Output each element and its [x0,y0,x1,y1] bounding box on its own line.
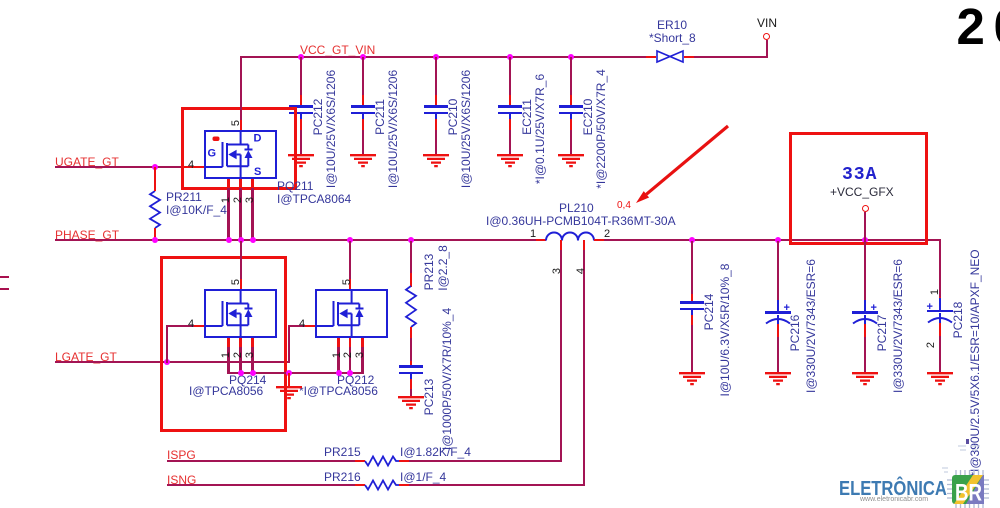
value PC211 [386,70,400,188]
label PL210 [559,201,594,215]
wire PL210 pin2 red stub [594,239,604,241]
junction PHASE-PQ212p5 [347,237,353,243]
wire PC218 red stub lower [939,323,941,338]
value EC211 [533,74,547,184]
value EC210 [594,69,608,189]
wire EC210 lower red stub [570,119,572,130]
capacitor PC217 [864,300,866,314]
junction PC210 [433,54,439,60]
value I@1/F_4 [400,470,446,484]
wire ISPG right [409,460,562,462]
label PQ214 [229,373,266,387]
wire PL210 pin1 red stub [536,239,546,241]
capacitor PC211 [351,105,375,107]
plus sign PC217 [871,302,877,314]
junction EC211 [507,54,513,60]
wire PC214 lower [691,325,693,373]
wire PHASE_GT [55,239,536,241]
wire PC210 upper [435,57,437,95]
plus sign PC218 [927,301,933,313]
label PR213 [422,254,436,291]
label PC211 [373,99,387,135]
ground under PC211 [349,154,377,168]
pin 1 PQ214 [220,352,232,358]
wire PQ214 pin2 red stub [239,338,241,348]
label 33A [842,165,877,185]
label PC213 [422,379,436,416]
wire PC217 lower [864,337,866,373]
page number 2 [957,1,985,52]
label PC210 [446,99,460,136]
wire PQ214 pin1 red stub [227,338,229,348]
value PC216 [804,259,818,393]
pin 2 PQ211 [232,197,244,203]
capacitor PC214 [680,301,704,303]
junction PC211 [360,54,366,60]
pin 3 PQ211 [244,197,256,203]
wire PQ214 pin3 red stub [251,338,253,348]
wire EC211 upper red stub [509,95,511,107]
pin 3 PQ212 [354,352,366,358]
junction out-PC214 [689,237,695,243]
wire PR213-PC213 [410,338,412,363]
wire PQ212 gate red stub [305,325,315,327]
wire PQ214 pin5 riser [240,241,242,279]
wire PC216 red stub lower [777,324,779,338]
wire VCC_GT_VIN bus [241,56,646,58]
wire PC210 lower red stub [435,119,437,130]
junction out-PC217 [862,237,868,243]
label PR216 [324,470,361,484]
pin 3 PL210 [551,268,563,274]
wire EC211 upper [509,57,511,95]
wire EC211 lower red stub [509,119,511,130]
box around PQ211 [181,107,297,190]
wire ISNG right [409,484,585,486]
annotation arrow [632,120,732,210]
wire PQ212 pin1 red stub [337,338,339,348]
wire PQ211 pin1 red stub [227,179,229,189]
label EC210 [581,99,595,136]
value *I@TPCA8056 [299,384,378,398]
capacitor EC210 [559,105,583,107]
junction PHASE-PR211 [152,237,158,243]
wire PQ212 pin5 riser [349,241,351,279]
box around PQ214 [160,256,287,432]
pin 2 PQ214 [232,352,244,358]
wire PQ214 pin1 [227,347,229,374]
wire ER10 left red stub [646,56,656,58]
wire PQ212 pin1 [337,347,339,374]
resistor PR211 [149,191,161,228]
wire EC211 lower [509,130,511,155]
wire PL210 pin4 red stub [583,240,585,251]
label PC217 [875,315,889,352]
wire PC211 lower [362,130,364,155]
net label ISNG [167,473,196,487]
wire PQ212 pin3 [361,347,363,374]
wire PQ214 pin5 red stub [240,279,242,289]
pin 4 PL210 [575,268,587,274]
wire EC210 lower [570,130,572,155]
junction rail-PQ214p2 [238,370,244,376]
wire PQ214 pin3 [251,347,253,374]
wire PC213 bottom red [410,379,412,390]
wire PQ211 pin1 [227,188,229,241]
wire PC210 lower [435,130,437,155]
EletronicaBR logo text [839,478,947,501]
wire PR213 top red [410,273,412,287]
wire PC217 upper [864,241,866,301]
net label +VCC_GFX [830,185,894,199]
wire LGATE_GT [55,361,289,363]
wire ISPG red stub right [399,460,409,462]
wire ISNG red stub right [399,484,409,486]
wire PC211 upper [362,57,364,95]
wire PC218 drop [939,240,941,298]
wire UGATE red stub to PQ211 gate [181,166,204,168]
wire PR213 bottom red [410,327,412,339]
wire VIN drop [766,40,768,57]
label PR215 [324,445,361,459]
wire ground stem [288,373,290,387]
wire ISPG red stub left [355,460,365,462]
junction PHASE-PR213 [408,237,414,243]
wire EC210 upper [570,57,572,95]
junction PHASE-PQ211p3 [250,237,256,243]
wire ISPG left [167,460,355,462]
pin 1 PQ212 [331,352,343,358]
wire PC218 lower [939,336,941,373]
junction PHASE-PQ211p1 [226,237,232,243]
wire PC212 lower red stub [300,119,302,130]
value I@10K/F_4 [166,203,227,217]
value I@TPCA8064 [277,192,351,206]
label PC214 [702,294,716,331]
pin 1 PL210 [530,228,536,240]
wire PQ212 gate vertical [288,326,290,363]
pin 1 PC218 [929,288,941,294]
wire PC212 upper red stub [300,95,302,107]
wire source rail [228,372,364,374]
wire UGATE_GT [55,166,181,168]
EletronicaBR logo url [860,496,928,503]
wire PC214 upper [691,241,693,295]
label EC211 [520,99,534,135]
capacitor PC216 [777,300,779,314]
wire PQ212 gate horizontal [288,325,305,327]
net label PHASE_GT [55,228,119,242]
net label UGATE_GT [55,155,119,169]
wire PC213 bottom [410,389,412,398]
wire PQ212 pin5 red stub [349,279,351,289]
wire +VCC_GFX stem [864,212,866,241]
capacitor PC213 [399,365,423,367]
junction out-PC216 [775,237,781,243]
net label VCC_GT_VIN [300,43,375,57]
wire VCC_GFX output bus [604,239,941,241]
wire off-page stub B [0,288,9,290]
wire PR211 top red [154,167,156,191]
pin 1 PQ211 [220,197,232,203]
wire PR213 top [410,241,412,274]
ground under PC212 [287,154,315,168]
wire PC212 upper [300,57,302,95]
ground under PC213 [397,396,425,410]
pin 3 PQ214 [244,352,256,358]
pin 2 PC218 [925,342,937,348]
transistor PQ212 [315,289,388,338]
wire PQ214 gate red stub [194,325,204,327]
inductor PL210 [546,231,594,241]
current label 0,4 [617,200,631,211]
wire PC216 upper [777,241,779,301]
label PQ212 [337,373,374,387]
junction rail-PQ214p3 [250,370,256,376]
wire PL210 pin3 red stub [560,240,562,251]
plus sign PC216 [784,302,790,314]
value PC212 [324,70,338,188]
pin 4 PQ214 [188,318,194,330]
value PR213 [436,245,450,291]
wire EC210 upper red stub [570,95,572,107]
capacitor PC210 [424,105,448,107]
resistor PR215 [365,455,399,467]
label VIN [757,16,777,30]
value PC218 [968,249,982,476]
wire PQ211 pin3 red stub [251,179,253,189]
junction rail-gnd [286,370,292,376]
wire PC216 lower [777,337,779,373]
svg-text:D: D [254,133,262,145]
wire PL210 pin4 riser [583,250,585,486]
junction PC212 [298,54,304,60]
wire ISNG red stub left [355,484,365,486]
net label LGATE_GT [55,350,117,364]
wire PQ211 pin5 red stub [240,120,242,130]
wire ER10 right red stub [684,56,694,58]
junction LGATE-PQ214gate [164,359,170,365]
label PQ211 [277,179,313,193]
wire PQ211 pin2 red stub [239,179,241,189]
net label ISPG [167,448,196,462]
label PC216 [788,315,802,352]
pin 5 PQ212 [341,279,353,285]
box 33A current annotation [789,132,928,245]
resistor PR216 [365,479,399,491]
value I@TPCA8056 [189,384,263,398]
power port +VCC_GFX [862,205,869,212]
ground under PC217 [851,372,879,386]
pin 4 PQ211 [188,159,194,171]
pin 2 PQ212 [342,352,354,358]
ground under EC210 [557,154,585,168]
wire PQ212 pin2 red stub [349,338,351,348]
value *Short_8 [649,31,696,45]
page number 0 [994,1,1000,52]
ground under PC210 [422,154,450,168]
wire PC214 red stub upper [691,294,693,303]
resistor PR213 [405,286,417,327]
transistor PQ211 [204,130,277,179]
wire PC214 red stub lower [691,315,693,326]
power port VIN [763,33,770,40]
wire PQ211 pin2 [239,188,241,241]
junction UGATE-PR211 [152,164,158,170]
transistor PQ214 [204,289,277,338]
wire PC212 lower [300,130,302,155]
label PR211 [166,190,202,204]
value I@1.82K/F_4 [400,445,471,459]
label PC218 [951,302,965,339]
pin 2 PL210 [604,228,610,240]
capacitor PC218 [939,298,941,312]
wire PC217 red stub lower [864,324,866,338]
ground under MOSFET pair [275,386,303,400]
wire PC218 red stub upper [939,297,941,300]
svg-text:G: G [208,148,217,160]
wire PL210 pin3 riser [560,250,562,462]
junction PHASE-PQ211p2 [238,237,244,243]
wire PQ211 pin5 riser [240,56,242,120]
wire ISNG left [167,484,355,486]
value PC213 [440,308,454,450]
capacitor EC211 [498,105,522,107]
junction rail-PQ212p1 [336,370,342,376]
wire PC211 upper red stub [362,95,364,107]
svg-text:S: S [254,166,261,178]
ground under PC216 [764,372,792,386]
junction EC210 [568,54,574,60]
ground under EC211 [496,154,524,168]
wire PQ211 pin3 [251,188,253,241]
value PL210 [486,214,676,228]
wire PC213 top red [410,361,412,367]
value PC214 [718,264,732,397]
value PC217 [891,259,905,393]
wire PQ214 gate vertical [166,326,168,363]
value PC210 [459,70,473,188]
wire PR211 bottom red [154,228,156,241]
svg-text:BR: BR [955,480,982,507]
wire PQ214 gate horizontal [166,325,194,327]
wire PQ212 pin2 [349,347,351,374]
wire PC210 upper red stub [435,95,437,107]
EletronicaBR logo chip [930,438,1000,508]
capacitor PC212 [289,105,313,107]
wire PQ214 pin2 [239,347,241,374]
wire PC211 lower red stub [362,119,364,130]
label ER10 [657,18,687,32]
label PC212 [311,99,325,136]
ground under PC218 [926,372,954,386]
wire PQ212 pin3 red stub [361,338,363,348]
junction rail-PQ212p2 [347,370,353,376]
pin 5 PQ214 [230,279,242,285]
resistor ER10 short symbol [656,50,684,63]
wire VCC bus right of ER10 [694,56,768,58]
ground under PC214 [678,372,706,386]
pin 5 PQ211 [230,120,242,126]
wire off-page stub A [0,276,9,278]
pin 4 PQ212 [299,318,305,330]
